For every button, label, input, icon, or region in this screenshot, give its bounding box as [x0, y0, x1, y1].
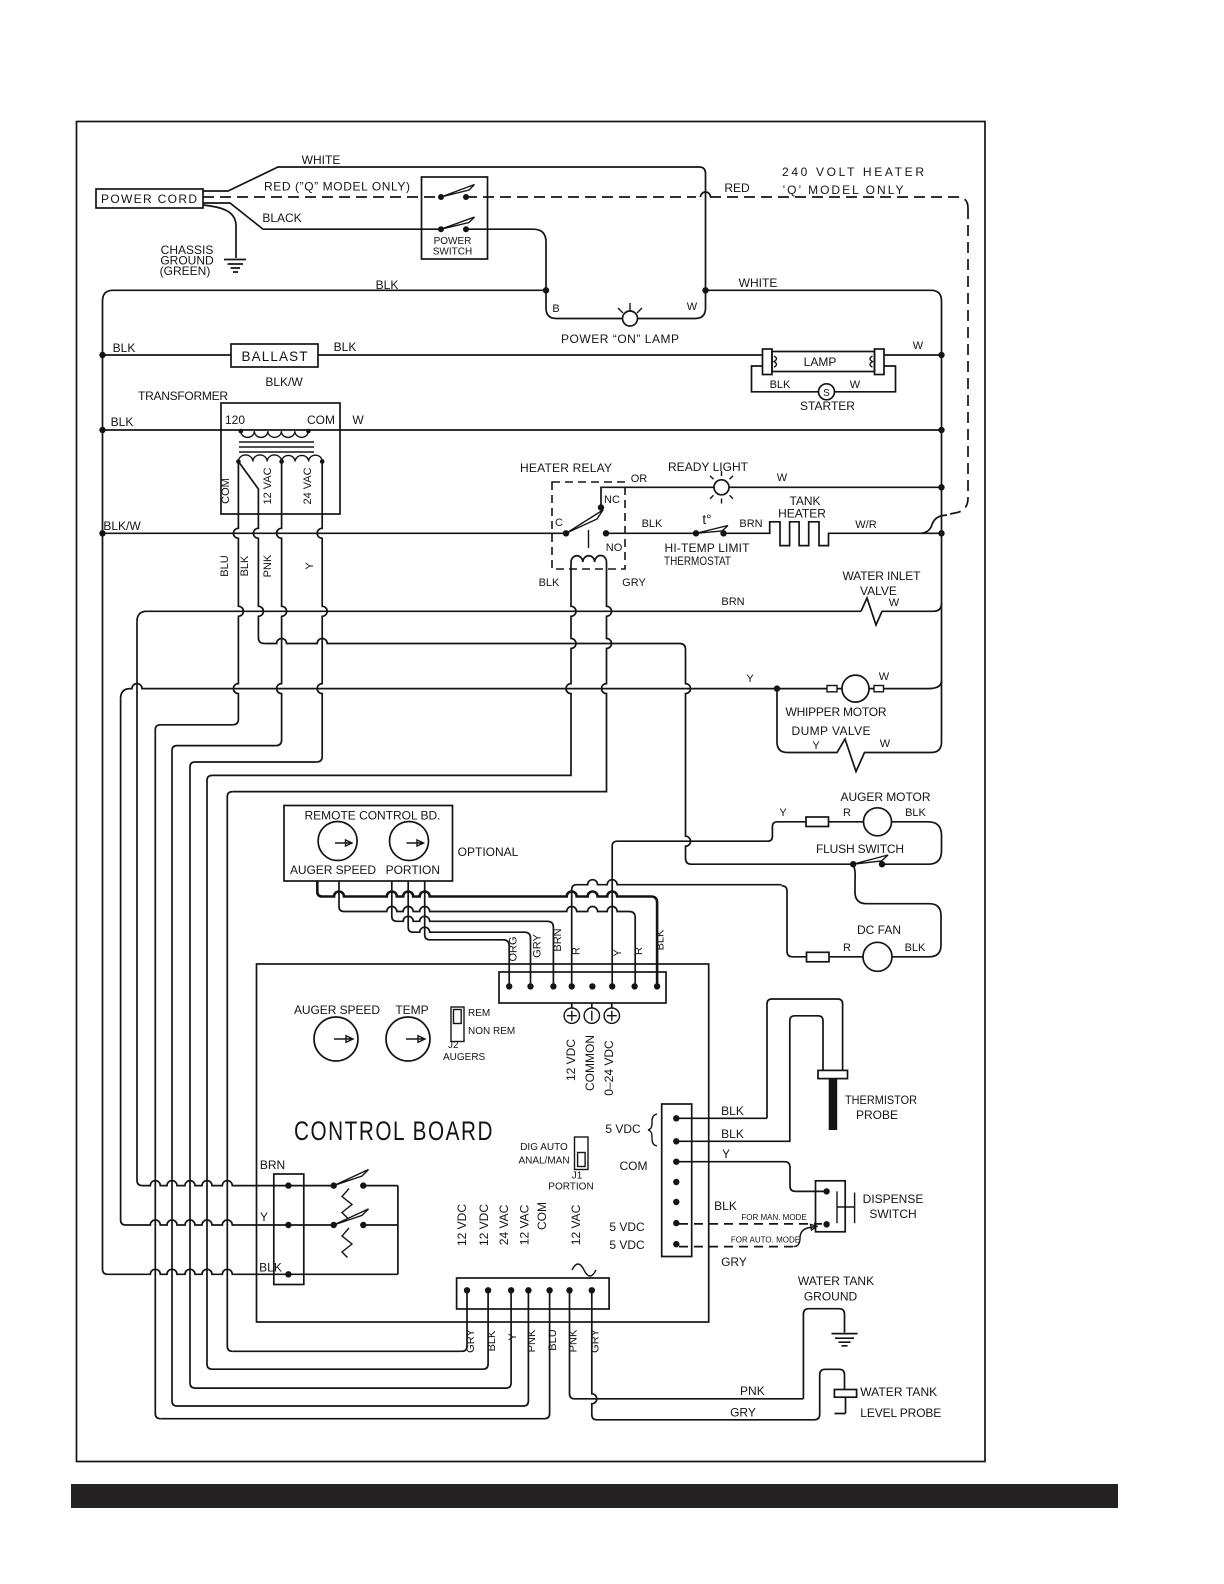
svg-text:BLK: BLK	[113, 341, 136, 355]
svg-text:COM: COM	[307, 413, 335, 427]
svg-text:VALVE: VALVE	[860, 584, 897, 598]
svg-text:BLK: BLK	[721, 1127, 744, 1141]
transformer core	[239, 442, 314, 452]
wire thermistor BLK outer	[676, 999, 842, 1118]
svg-text:Y: Y	[612, 949, 624, 957]
wire relay coil BLK	[213, 576, 577, 775]
svg-text:PORTION: PORTION	[548, 1182, 593, 1193]
wire W transformer primary line	[103, 429, 942, 431]
svg-text:COMMON: COMMON	[583, 1035, 597, 1091]
svg-text:GRY: GRY	[590, 1329, 602, 1353]
svg-text:FOR AUTO. MODE: FOR AUTO. MODE	[731, 1236, 800, 1245]
wire red dashed to 240V heater	[466, 196, 696, 198]
svg-text:BLK: BLK	[376, 278, 399, 292]
terminal 0-24VDC plus	[611, 1003, 613, 1008]
lamp power "on"	[623, 311, 638, 326]
wire BLK row 643	[264, 639, 691, 865]
svg-text:BLACK: BLACK	[262, 211, 301, 225]
svg-text:12 VDC: 12 VDC	[564, 1039, 578, 1081]
svg-text:BLK: BLK	[111, 415, 134, 429]
dump valve loop	[777, 689, 931, 772]
svg-text:WHIPPER MOTOR: WHIPPER MOTOR	[786, 705, 887, 719]
svg-text:THERMOSTAT: THERMOSTAT	[664, 554, 732, 568]
wire left rail BLK x102.5	[103, 355, 108, 1274]
wire remote 4 GRY to pin2	[408, 881, 530, 986]
wire bottom pin1 GRY to rail	[232, 1290, 467, 1351]
svg-text:BLK: BLK	[905, 942, 926, 954]
wire bottom pin5 BLU to rail	[160, 1290, 549, 1418]
wire bottom pin4 PNK to rail	[177, 1290, 528, 1406]
svg-text:Y: Y	[507, 1333, 519, 1341]
svg-text:AUGER SPEED: AUGER SPEED	[290, 863, 376, 877]
svg-text:GRY: GRY	[532, 934, 544, 958]
svg-text:PORTION: PORTION	[386, 863, 440, 877]
svg-text:W: W	[687, 301, 698, 313]
svg-text:W: W	[889, 597, 900, 609]
svg-text:BLK/W: BLK/W	[103, 519, 141, 533]
wire BRN row	[142, 1181, 334, 1186]
svg-text:12 VAC: 12 VAC	[262, 467, 274, 504]
auger motor resistor R	[806, 817, 829, 827]
wire ready light W to bus	[729, 486, 942, 488]
svg-text:BLK: BLK	[486, 1330, 498, 1351]
svg-text:POWER “ON” LAMP: POWER “ON” LAMP	[561, 332, 679, 346]
svg-text:BLK: BLK	[259, 1261, 282, 1275]
svg-text:WHITE: WHITE	[739, 276, 778, 290]
power switch box	[422, 177, 488, 259]
right connector	[662, 1104, 692, 1257]
svg-text:NC: NC	[604, 494, 620, 506]
wire BLK ballast line	[103, 354, 763, 356]
wire BLK/W line	[103, 532, 567, 534]
svg-text:W: W	[850, 379, 861, 391]
starter	[819, 384, 835, 400]
svg-text:(GREEN): (GREEN)	[160, 264, 211, 278]
power cord box	[96, 189, 203, 208]
top connector	[499, 972, 666, 1003]
svg-text:BLU: BLU	[547, 1329, 559, 1350]
svg-text:J2: J2	[448, 1040, 459, 1051]
wire Y to dispense switch	[676, 1162, 826, 1192]
power switch pole 2	[438, 226, 444, 232]
svg-text:B: B	[552, 303, 559, 315]
wire Y 24VAC secondary	[316, 462, 327, 763]
svg-text:PNK: PNK	[568, 1329, 580, 1352]
svg-text:TRANSFORMER: TRANSFORMER	[138, 389, 228, 403]
wire link to 240V dashed	[921, 515, 947, 533]
wire left rail BRN x137	[137, 621, 142, 1185]
svg-text:W: W	[880, 738, 891, 750]
svg-text:12 VDC: 12 VDC	[455, 1204, 469, 1246]
tank heater	[724, 522, 942, 546]
svg-text:AUGER SPEED: AUGER SPEED	[294, 1003, 380, 1017]
svg-text:REM: REM	[468, 1008, 490, 1019]
hi-temp limit thermostat	[693, 530, 699, 536]
transformer primary winding	[239, 429, 244, 434]
svg-text:PNK: PNK	[526, 1329, 538, 1352]
svg-text:BLK/W: BLK/W	[265, 375, 303, 389]
board switch 2	[331, 1222, 337, 1228]
terminal 12VDC plus	[571, 1003, 573, 1008]
svg-text:GRY: GRY	[465, 1329, 477, 1353]
power switch pole 1	[438, 194, 444, 200]
svg-text:LAMP: LAMP	[804, 355, 837, 369]
bottom connector	[457, 1278, 609, 1309]
svg-text:W/R: W/R	[855, 519, 876, 531]
wire BRN water inlet valve line	[137, 611, 861, 621]
wire remote 1 BLK to pin8	[317, 881, 657, 986]
svg-text:BLK: BLK	[770, 379, 791, 391]
fluorescent lamp	[763, 349, 773, 375]
wire red dashed ("Q" model only)	[203, 196, 441, 198]
svg-text:NO: NO	[606, 542, 623, 554]
svg-text:FLUSH SWITCH: FLUSH SWITCH	[816, 842, 904, 856]
remote control board box	[284, 806, 453, 882]
wire remote 3 BRN to pin3	[392, 881, 554, 986]
wire flush to DC fan	[853, 864, 941, 957]
node white junction	[702, 287, 708, 293]
water tank level probe	[834, 1390, 856, 1398]
wire black from power cord	[203, 203, 441, 229]
water inlet valve	[861, 598, 942, 625]
svg-text:POWER CORD: POWER CORD	[101, 192, 197, 206]
wire rail Y24 x190 and link	[190, 762, 316, 1388]
wire black from power switch down	[466, 229, 546, 290]
svg-text:BLK: BLK	[539, 577, 560, 589]
svg-text:SWITCH: SWITCH	[433, 247, 472, 258]
wire R row from pin4	[572, 880, 782, 987]
svg-text:Y: Y	[812, 740, 820, 752]
svg-text:COM: COM	[220, 478, 232, 504]
svg-text:OR: OR	[631, 473, 648, 485]
svg-text:5 VDC: 5 VDC	[605, 1122, 641, 1136]
terminal COMMON	[591, 1003, 593, 1008]
svg-text:GRY: GRY	[622, 577, 646, 589]
svg-text:120: 120	[225, 413, 245, 427]
svg-text:BLK: BLK	[905, 807, 926, 819]
DC fan resistor R	[807, 952, 830, 962]
svg-text:Y: Y	[746, 673, 754, 685]
svg-text:BALLAST: BALLAST	[242, 349, 308, 364]
switch J1 portion	[575, 1137, 589, 1170]
svg-text:5 VDC: 5 VDC	[609, 1238, 645, 1252]
svg-text:Y: Y	[722, 1147, 730, 1161]
wire rail BLU x155.3 and link	[155, 725, 232, 1419]
node whipper junction	[774, 685, 780, 691]
switch J2 augers	[451, 1007, 464, 1042]
svg-text:LEVEL PROBE: LEVEL PROBE	[860, 1406, 941, 1420]
svg-text:GRY: GRY	[730, 1406, 756, 1420]
ballast	[231, 344, 318, 367]
svg-text:WHITE: WHITE	[302, 153, 341, 167]
svg-text:DISPENSE: DISPENSE	[863, 1192, 924, 1206]
svg-text:24 VAC: 24 VAC	[497, 1204, 511, 1245]
wire PNK from pin6	[570, 1290, 804, 1399]
bottom black bar	[71, 1484, 1118, 1508]
heater relay contacts	[563, 530, 569, 536]
wire remote 2 R to pin7	[339, 881, 635, 986]
svg-text:C: C	[555, 517, 563, 529]
wire right W bus	[931, 355, 942, 753]
svg-text:POWER: POWER	[434, 236, 472, 247]
control board box	[257, 964, 709, 1322]
wire BLK main to left rail	[103, 290, 547, 355]
svg-text:COM: COM	[535, 1202, 549, 1230]
svg-text:HI-TEMP LIMIT: HI-TEMP LIMIT	[665, 541, 751, 555]
wire white to lamp bus	[706, 290, 942, 355]
wire lamp to bus	[884, 354, 942, 356]
svg-text:PNK: PNK	[262, 554, 274, 577]
svg-text:J1: J1	[572, 1171, 583, 1182]
svg-text:GROUND: GROUND	[804, 1290, 858, 1304]
svg-text:STARTER: STARTER	[800, 399, 855, 413]
wire Y feed to auger motor	[612, 822, 806, 987]
svg-text:TEMP: TEMP	[395, 1003, 428, 1017]
wire Y whipper line	[121, 684, 777, 699]
svg-text:PNK: PNK	[740, 1384, 765, 1398]
wire white from power cord	[203, 167, 706, 290]
svg-text:COM: COM	[620, 1159, 648, 1173]
svg-text:SWITCH: SWITCH	[869, 1207, 916, 1221]
svg-text:R: R	[571, 947, 583, 955]
svg-text:BRN: BRN	[721, 596, 744, 608]
node W/R bus	[938, 530, 944, 536]
svg-text:CONTROL BOARD: CONTROL BOARD	[294, 1116, 494, 1146]
svg-text:ANAL/MAN: ANAL/MAN	[518, 1156, 569, 1167]
svg-text:BLK: BLK	[334, 340, 357, 354]
ready light	[714, 480, 729, 495]
wire BLK row	[108, 1269, 398, 1274]
svg-text:WATER INLET: WATER INLET	[843, 569, 922, 583]
svg-text:12 VDC: 12 VDC	[477, 1204, 491, 1246]
svg-text:AUGER MOTOR: AUGER MOTOR	[841, 790, 931, 804]
starter loop	[752, 366, 896, 392]
svg-text:’Q’ MODEL ONLY: ’Q’ MODEL ONLY	[783, 183, 904, 197]
wire bottom pin3 Y to rail	[195, 1290, 511, 1388]
svg-text:5 VDC: 5 VDC	[609, 1220, 645, 1234]
svg-text:NON REM: NON REM	[468, 1026, 515, 1037]
svg-text:BRN: BRN	[260, 1158, 285, 1172]
svg-text:READY LIGHT: READY LIGHT	[668, 460, 749, 474]
flush switch	[692, 863, 854, 865]
left connector	[274, 1174, 304, 1285]
remote knob portion	[390, 822, 429, 861]
svg-text:DC FAN: DC FAN	[857, 923, 901, 937]
wire NO BLK to thermostat	[606, 532, 696, 534]
transformer COM tap diagonal	[238, 462, 264, 644]
wire rail coilGRY x227.3	[227, 792, 233, 1352]
svg-text:WATER TANK: WATER TANK	[798, 1274, 874, 1288]
svg-text:BLK: BLK	[642, 518, 663, 530]
wire rail coilBLK x207	[207, 775, 213, 1369]
svg-text:HEATER: HEATER	[778, 507, 826, 521]
wire NC to ready light	[601, 487, 714, 507]
svg-text:S: S	[823, 388, 830, 399]
transformer secondary winding	[236, 459, 241, 464]
heater relay dashed box	[552, 482, 625, 569]
whipper motor	[777, 681, 942, 689]
wire remote 5 ORG to pin1	[425, 881, 510, 986]
svg-text:AUGERS: AUGERS	[443, 1052, 486, 1063]
svg-text:Y: Y	[304, 562, 316, 570]
wire relay coil GRY	[233, 576, 612, 792]
svg-text:Y: Y	[779, 807, 787, 819]
svg-text:RED (”Q” MODEL ONLY): RED (”Q” MODEL ONLY)	[264, 180, 410, 194]
board switch 1	[331, 1182, 337, 1188]
svg-text:HEATER RELAY: HEATER RELAY	[520, 461, 612, 475]
svg-text:Y: Y	[260, 1210, 268, 1224]
node power switch black junction	[543, 287, 549, 293]
svg-text:12 VAC: 12 VAC	[518, 1204, 532, 1245]
svg-text:WATER TANK: WATER TANK	[860, 1385, 937, 1399]
svg-text:t°: t°	[702, 512, 711, 527]
wire rail PNK x172 and link	[172, 746, 276, 1406]
svg-text:THERMISTOR: THERMISTOR	[845, 1093, 917, 1107]
svg-text:BLK: BLK	[721, 1104, 744, 1118]
wire B to power on lamp	[546, 290, 706, 318]
wire GRY from pin7	[592, 1290, 845, 1420]
svg-text:BLU: BLU	[219, 555, 231, 576]
chassis ground symbol	[224, 260, 246, 273]
chassis ground wire (green)	[203, 205, 236, 258]
svg-text:PROBE: PROBE	[856, 1108, 898, 1122]
svg-text:REMOTE CONTROL BD.: REMOTE CONTROL BD.	[305, 809, 441, 823]
thermistor probe	[818, 1070, 848, 1078]
svg-text:DUMP VALVE: DUMP VALVE	[792, 724, 871, 738]
svg-text:OPTIONAL: OPTIONAL	[458, 845, 519, 859]
wire bottom pin2 BLK to rail	[212, 1290, 488, 1369]
svg-text:BLK: BLK	[239, 555, 251, 576]
transformer box	[221, 403, 340, 514]
water tank ground symbol	[832, 1333, 858, 1335]
wire BLU secondary	[232, 462, 243, 725]
svg-text:12 VAC: 12 VAC	[569, 1204, 583, 1245]
svg-text:W: W	[913, 340, 924, 352]
svg-text:W: W	[879, 671, 890, 683]
svg-text:R: R	[633, 947, 645, 955]
remote knob auger speed	[318, 822, 357, 861]
wire left rail Y x120.6	[121, 699, 126, 1225]
svg-text:GRY: GRY	[721, 1255, 747, 1269]
wire Y row	[126, 1220, 334, 1225]
svg-text:R: R	[843, 942, 851, 954]
svg-text:W: W	[777, 472, 788, 484]
svg-text:BLK: BLK	[714, 1199, 737, 1213]
svg-text:24 VAC: 24 VAC	[302, 467, 314, 504]
svg-text:DIG AUTO: DIG AUTO	[520, 1142, 568, 1153]
svg-text:W: W	[352, 413, 364, 427]
auger motor	[864, 808, 892, 836]
svg-text:RED: RED	[724, 181, 750, 195]
svg-text:0–24 VDC: 0–24 VDC	[602, 1040, 616, 1096]
wire switch outputs	[363, 1186, 398, 1275]
svg-text:FOR MAN. MODE: FOR MAN. MODE	[741, 1213, 806, 1222]
wire thermistor BLK inner	[676, 1016, 823, 1142]
svg-text:BLK: BLK	[655, 929, 667, 950]
svg-text:R: R	[843, 807, 851, 819]
heater relay coil	[571, 556, 607, 577]
water tank ground wire	[803, 1309, 844, 1399]
wire PNK secondary	[276, 462, 287, 746]
border frame	[77, 122, 986, 1462]
dispense switch	[816, 1181, 846, 1232]
svg-text:BRN: BRN	[739, 518, 762, 530]
svg-text:BRN: BRN	[552, 928, 564, 951]
DC fan	[863, 942, 892, 971]
AC squiggle	[572, 1264, 596, 1276]
svg-text:ORG: ORG	[508, 936, 520, 961]
